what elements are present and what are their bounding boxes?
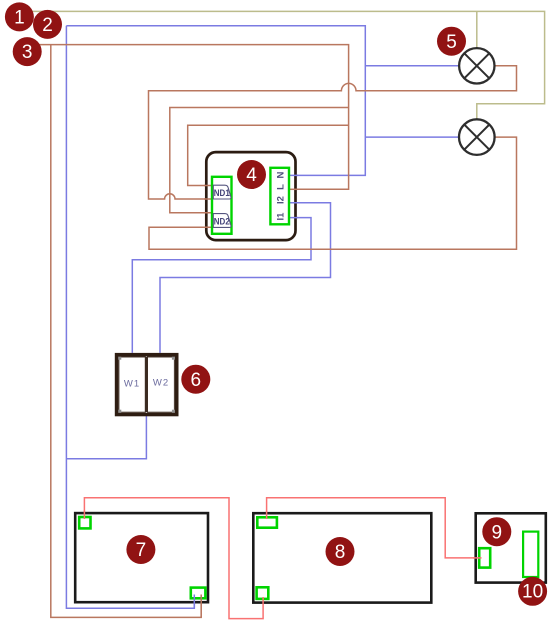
callout badge 9	[482, 517, 511, 546]
box7 brown stub over border	[200, 595, 202, 618]
wire blue I2 to W2	[160, 203, 331, 353]
svg-text:W1: W1	[124, 378, 140, 389]
junction box 7	[75, 513, 208, 602]
svg-text:8: 8	[335, 542, 346, 563]
svg-text:6: 6	[191, 370, 202, 391]
junction box 8	[253, 513, 431, 602]
box7 blue stub over border	[193, 595, 195, 609]
callout badge 8	[326, 537, 355, 566]
svg-text:10: 10	[522, 581, 543, 602]
box7 connector bottom-right (green)	[191, 588, 206, 599]
callout badge 4	[237, 160, 266, 189]
svg-text:W2: W2	[153, 377, 169, 388]
wire blue stub to lamp1 left	[365, 65, 459, 67]
svg-text:L: L	[276, 184, 287, 190]
module left terminal stubs (over border)	[204, 186, 214, 228]
wire brown branch to ND1 top	[188, 125, 349, 185]
svg-text:2: 2	[42, 15, 53, 36]
relay module U1 body	[206, 152, 295, 240]
svg-text:ND1: ND1	[214, 188, 230, 199]
callout badge 3	[13, 37, 42, 66]
terminal flag ND1	[213, 185, 231, 199]
box8 connector top-left (green)	[257, 517, 277, 527]
box7 red stub over border	[83, 511, 85, 520]
wire brown lamp1 return	[149, 66, 517, 199]
callout badge 6	[181, 365, 210, 394]
wire brown lamp2 return	[149, 137, 517, 249]
wire blue neutral left drop	[66, 26, 194, 608]
svg-text:4: 4	[246, 165, 257, 186]
callout badge 1	[5, 2, 34, 31]
wire blue stub to lamp2 left	[365, 136, 459, 138]
callout badge 10	[518, 577, 547, 606]
device box 9	[476, 513, 546, 582]
box9 wire stub over border	[473, 557, 482, 559]
box9 connector small (green)	[479, 548, 490, 567]
box8 connector bottom-left (green)	[257, 587, 269, 599]
svg-text:I2: I2	[276, 196, 287, 204]
wire red box8 to box9	[267, 498, 482, 558]
callout badge 5	[437, 27, 466, 56]
wire blue switch common	[66, 416, 146, 459]
svg-text:5: 5	[446, 32, 457, 53]
box9 connector tall (green)	[523, 532, 538, 577]
callout badge 7	[126, 535, 155, 564]
wire olive branch to lamp1 top	[476, 11, 478, 48]
svg-text:1: 1	[14, 8, 25, 29]
box8 wire stubs over border	[263, 511, 267, 605]
svg-text:ND2: ND2	[214, 216, 230, 227]
svg-text:7: 7	[136, 540, 147, 561]
wire olive lamp-line top	[25, 11, 545, 119]
svg-text:9: 9	[492, 522, 503, 543]
wire brown live drop to box7	[51, 45, 201, 618]
wire brown branch to ND2 top	[170, 108, 349, 213]
svg-text:3: 3	[22, 42, 33, 63]
module L terminal stub (over border)	[288, 188, 299, 190]
terminal flag ND2	[213, 214, 231, 228]
lamp E2	[459, 119, 495, 155]
wire blue I1 to W1	[132, 218, 311, 353]
svg-text:N: N	[276, 171, 287, 178]
wall switch S1 (W1/W2)	[115, 353, 179, 416]
svg-text:I1: I1	[276, 212, 287, 221]
callout badge 2	[33, 10, 62, 39]
lamp E1	[459, 48, 494, 83]
wire brown live main	[30, 45, 349, 190]
box7 connector top-left (green)	[79, 517, 90, 528]
wire blue neutral main	[66, 26, 365, 176]
wire red box7 to box8	[84, 498, 263, 619]
module right terminal stubs (over border)	[288, 175, 299, 217]
relay input terminal block (right, green)	[270, 168, 289, 225]
relay output terminal block (left, green)	[212, 177, 232, 234]
